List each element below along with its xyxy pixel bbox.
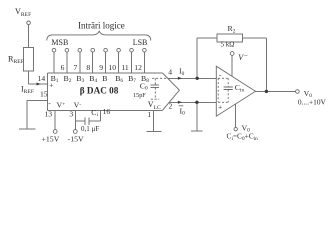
terminal V_REF <box>27 21 31 25</box>
junction I0 feedback <box>196 77 199 80</box>
svg-text:4: 4 <box>168 67 172 76</box>
wire I0bar junction to ground <box>196 102 198 131</box>
capacitor Ci plates <box>85 118 89 125</box>
wire input B7 <box>131 52 133 73</box>
DAC box left edge <box>46 73 48 110</box>
svg-text:LSB: LSB <box>133 38 148 47</box>
input terminal B7 <box>130 48 134 52</box>
svg-text:β DAC 08: β DAC 08 <box>80 85 119 95</box>
internal C0 dashed vertical lower <box>154 87 156 97</box>
terminal V0 bottom <box>234 127 237 130</box>
terminal +15V <box>53 130 57 134</box>
svg-text:+15V: +15V <box>42 135 60 144</box>
wire capacitor Ci to pin 16 <box>89 110 100 121</box>
svg-text:12: 12 <box>134 63 142 72</box>
capacitor Cin plates <box>224 87 233 90</box>
svg-text:7: 7 <box>74 63 78 72</box>
pin 4 wire I0 <box>168 77 217 79</box>
input terminal B1 <box>52 48 56 52</box>
junction output <box>265 90 268 93</box>
svg-text:11: 11 <box>121 63 129 72</box>
svg-text:15pF: 15pF <box>133 92 146 99</box>
svg-text:B: B <box>102 74 107 83</box>
input terminal B6 <box>117 48 121 52</box>
wire pin 3 to capacitor Ci <box>75 120 85 122</box>
wire pin 15 to ground <box>27 100 48 129</box>
arrowhead I0 <box>178 77 182 80</box>
svg-text:-15V: -15V <box>68 135 84 144</box>
terminal output V0 <box>296 90 300 94</box>
svg-text:MSB: MSB <box>51 38 68 47</box>
overbar of I0bar label <box>179 105 183 107</box>
svg-text:6: 6 <box>61 63 65 72</box>
pin 13 wire <box>54 110 56 129</box>
input terminal B2 <box>65 48 69 52</box>
input terminal B4 <box>91 48 95 52</box>
svg-text:−: − <box>244 51 248 59</box>
brace inputs <box>47 31 151 40</box>
svg-text:+: + <box>218 103 222 112</box>
svg-text:Intrări logice: Intrări logice <box>78 20 125 30</box>
op-amp U2 triangle <box>216 66 255 116</box>
svg-text:0,1 μF: 0,1 μF <box>81 125 99 133</box>
input terminal B3 <box>78 48 82 52</box>
terminal V- supply <box>230 52 234 56</box>
arrowhead I_REF <box>37 83 41 86</box>
terminal -15V <box>73 130 77 134</box>
wire op-amp output <box>256 90 296 92</box>
dashed Cin box left part <box>218 78 228 102</box>
resistor R_REF <box>24 48 34 72</box>
svg-text:16: 16 <box>103 107 111 116</box>
arrowhead I0bar <box>178 101 182 104</box>
dashed Cin vertical lower <box>227 90 229 103</box>
input terminal B8 <box>143 48 147 52</box>
svg-text:9: 9 <box>99 63 103 72</box>
wire feedback right <box>243 38 267 91</box>
svg-text:13: 13 <box>45 110 53 119</box>
DAC box bottom edge <box>47 109 162 111</box>
wire V_REF to R_REF <box>28 25 30 48</box>
junction I0bar ground <box>195 101 198 104</box>
DAC box top edge <box>47 72 162 74</box>
ground bar (I0bar) <box>191 130 202 132</box>
wire input B6 <box>118 52 120 73</box>
svg-text:2: 2 <box>169 101 173 110</box>
dashed Cin vertical upper <box>227 78 229 86</box>
svg-text:14: 14 <box>38 74 46 83</box>
resistor R2 <box>217 34 243 42</box>
wire input B5 <box>105 52 107 73</box>
input terminal B5 <box>104 48 108 52</box>
wire input B1 <box>53 52 55 73</box>
wire input B3 <box>79 52 81 73</box>
wire R_REF to pin 14 <box>29 71 48 84</box>
pin 1 wire <box>152 110 154 131</box>
ground bar (pin 1) <box>147 130 162 132</box>
svg-text:15: 15 <box>40 89 48 98</box>
internal C0 dashed wire top <box>152 77 168 79</box>
svg-text:0....+10V: 0....+10V <box>298 97 327 106</box>
internal C0 dashed vertical upper <box>154 78 156 84</box>
wire input B2 <box>66 52 68 73</box>
svg-text:8: 8 <box>86 63 90 72</box>
wire feedback left vertical <box>197 38 217 78</box>
wire input B8 <box>143 52 145 73</box>
ground bar (pin 15) <box>19 128 36 130</box>
DAC chevron right edge <box>163 73 180 110</box>
svg-text:3: 3 <box>69 110 73 119</box>
capacitor C0 plates <box>150 85 159 88</box>
wire V0 bottom pin <box>235 104 237 127</box>
svg-text:5 kΩ: 5 kΩ <box>221 40 235 48</box>
wire input B4 <box>92 52 94 73</box>
wire V- supply <box>231 55 233 76</box>
pin 3 wire <box>74 110 76 129</box>
svg-text:1: 1 <box>147 110 151 119</box>
svg-text:10: 10 <box>109 63 117 72</box>
dashed tick above V_LC <box>151 98 159 100</box>
pin 2 wire I0bar <box>169 101 216 103</box>
